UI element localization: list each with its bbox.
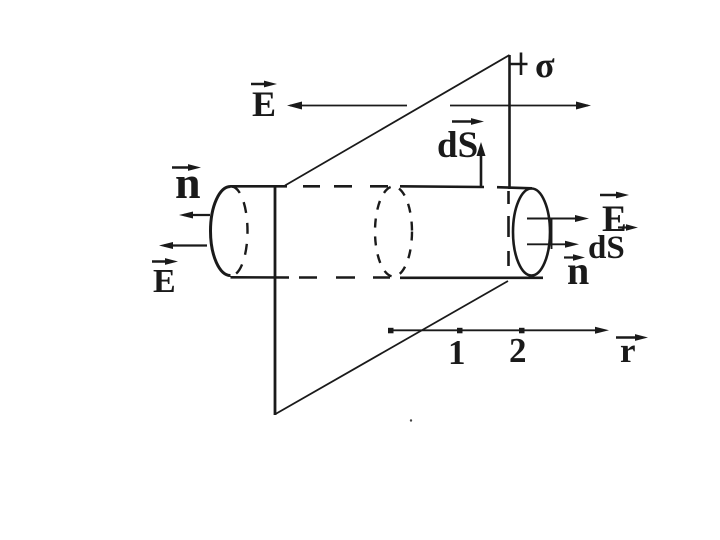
svg-text:σ: σ: [535, 45, 555, 85]
svg-text:dS: dS: [437, 125, 478, 166]
svg-text:r: r: [620, 331, 636, 370]
svg-text:2: 2: [509, 331, 527, 370]
svg-text:1: 1: [448, 333, 466, 372]
svg-text:n: n: [567, 248, 589, 293]
svg-text:n: n: [175, 157, 201, 208]
svg-text:E: E: [252, 84, 276, 124]
svg-text:E: E: [153, 263, 176, 300]
svg-text:dS: dS: [588, 230, 625, 266]
